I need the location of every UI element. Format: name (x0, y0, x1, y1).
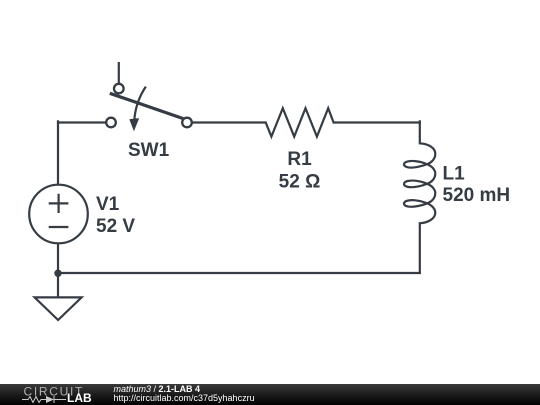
svg-text:V1: V1 (96, 194, 120, 215)
wire junction to ground (57, 273, 59, 297)
wire right vertical top (419, 121, 421, 143)
V1 plus sign (49, 194, 69, 213)
switch SW1 (106, 62, 192, 131)
voltage source V1 (29, 185, 88, 244)
switch SW1 right terminal circle (182, 118, 192, 128)
wire right vertical bottom (419, 223, 421, 273)
ground (35, 297, 82, 320)
footer bar (0, 384, 540, 405)
switch SW1 blade (110, 93, 184, 118)
wire switch to resistor (193, 121, 266, 123)
CircuitLab logo (0, 384, 100, 405)
footer title text (114, 385, 255, 403)
resistor R1 (266, 108, 334, 136)
V1 minus sign (49, 226, 69, 228)
wire bottom horizontal (58, 272, 420, 274)
switch SW1 left terminal circle (106, 118, 116, 128)
svg-text:520 mH: 520 mH (443, 185, 511, 206)
wire resistor to corner (334, 121, 420, 123)
svg-text:52 Ω: 52 Ω (279, 171, 321, 192)
svg-text:R1: R1 (287, 149, 312, 170)
svg-text:52 V: 52 V (96, 216, 135, 237)
wire top-left vertical (57, 121, 59, 184)
wire top-left horizontal (58, 121, 105, 123)
svg-text:LAB: LAB (67, 391, 92, 405)
switch SW1 actuation arrow (134, 87, 146, 122)
svg-text:SW1: SW1 (128, 140, 170, 161)
wire switch top stub (118, 62, 120, 83)
svg-text:L1: L1 (443, 164, 466, 185)
wire V1 bottom to junction (57, 244, 59, 273)
junction node (54, 270, 61, 277)
inductor L1 (404, 143, 435, 223)
switch SW1 top terminal circle (114, 84, 124, 94)
